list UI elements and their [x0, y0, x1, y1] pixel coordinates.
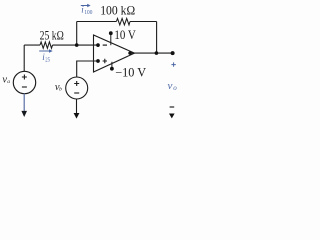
svg-text:10 V: 10 V [114, 28, 135, 42]
negative supply stem [111, 62, 113, 69]
svg-text:100 kΩ: 100 kΩ [100, 4, 135, 18]
node: feedback junction on output wire [155, 51, 159, 55]
current arrow i25 [39, 49, 53, 53]
node: non-inverting input terminal [96, 59, 100, 63]
node: output terminal [171, 51, 175, 55]
svg-text:v: v [168, 80, 173, 92]
source vb circle [66, 77, 88, 99]
source va plus marker [22, 75, 27, 80]
wire: feedback left vertical [76, 22, 78, 46]
resistor R2 100 kOhm [116, 18, 130, 25]
source va circle [13, 71, 35, 93]
wire: left vertical from input wire down to source va [23, 45, 25, 72]
svg-text:−10 V: −10 V [115, 66, 146, 80]
svg-text:a: a [7, 79, 10, 85]
negative supply dot [110, 67, 114, 71]
current arrow i100 [81, 4, 91, 7]
positive supply stem [110, 34, 112, 45]
svg-text:25 kΩ: 25 kΩ [40, 29, 64, 43]
svg-text:b: b [59, 87, 62, 93]
ground arrow at output reference [169, 114, 175, 119]
positive supply dot [109, 31, 113, 35]
op-amp minus input marker [103, 44, 107, 46]
wire: feedback top horizontal left segment [77, 21, 117, 23]
wire: output from op-amp apex to output terminal [130, 52, 173, 54]
op-amp plus input marker [103, 59, 107, 63]
svg-text:25: 25 [45, 58, 50, 64]
node: feedback junction on inverting input wire [75, 43, 79, 47]
source vb minus marker [74, 92, 79, 94]
ground arrow below va [21, 94, 27, 118]
node: output terminal dot inside apex [128, 51, 131, 54]
wire: input node to inverting input [24, 44, 40, 46]
svg-text:o: o [173, 84, 177, 92]
node: inverting input terminal [96, 43, 100, 47]
op-amp U1 [94, 35, 135, 72]
output minus polarity marker [170, 106, 175, 108]
resistor R1 25 kOhm [40, 42, 53, 48]
wire: resistor R1 to op-amp inverting input [53, 44, 99, 46]
ground arrow below vb [74, 99, 80, 119]
output plus polarity marker [171, 62, 175, 66]
source va minus marker [22, 86, 27, 88]
svg-text:100: 100 [84, 10, 92, 16]
wire: feedback top horizontal right segment [130, 21, 157, 23]
wire: feedback right vertical down to output [156, 22, 158, 54]
source vb plus marker [74, 81, 79, 86]
wire: vb source up and right to non-inverting input [77, 61, 98, 77]
